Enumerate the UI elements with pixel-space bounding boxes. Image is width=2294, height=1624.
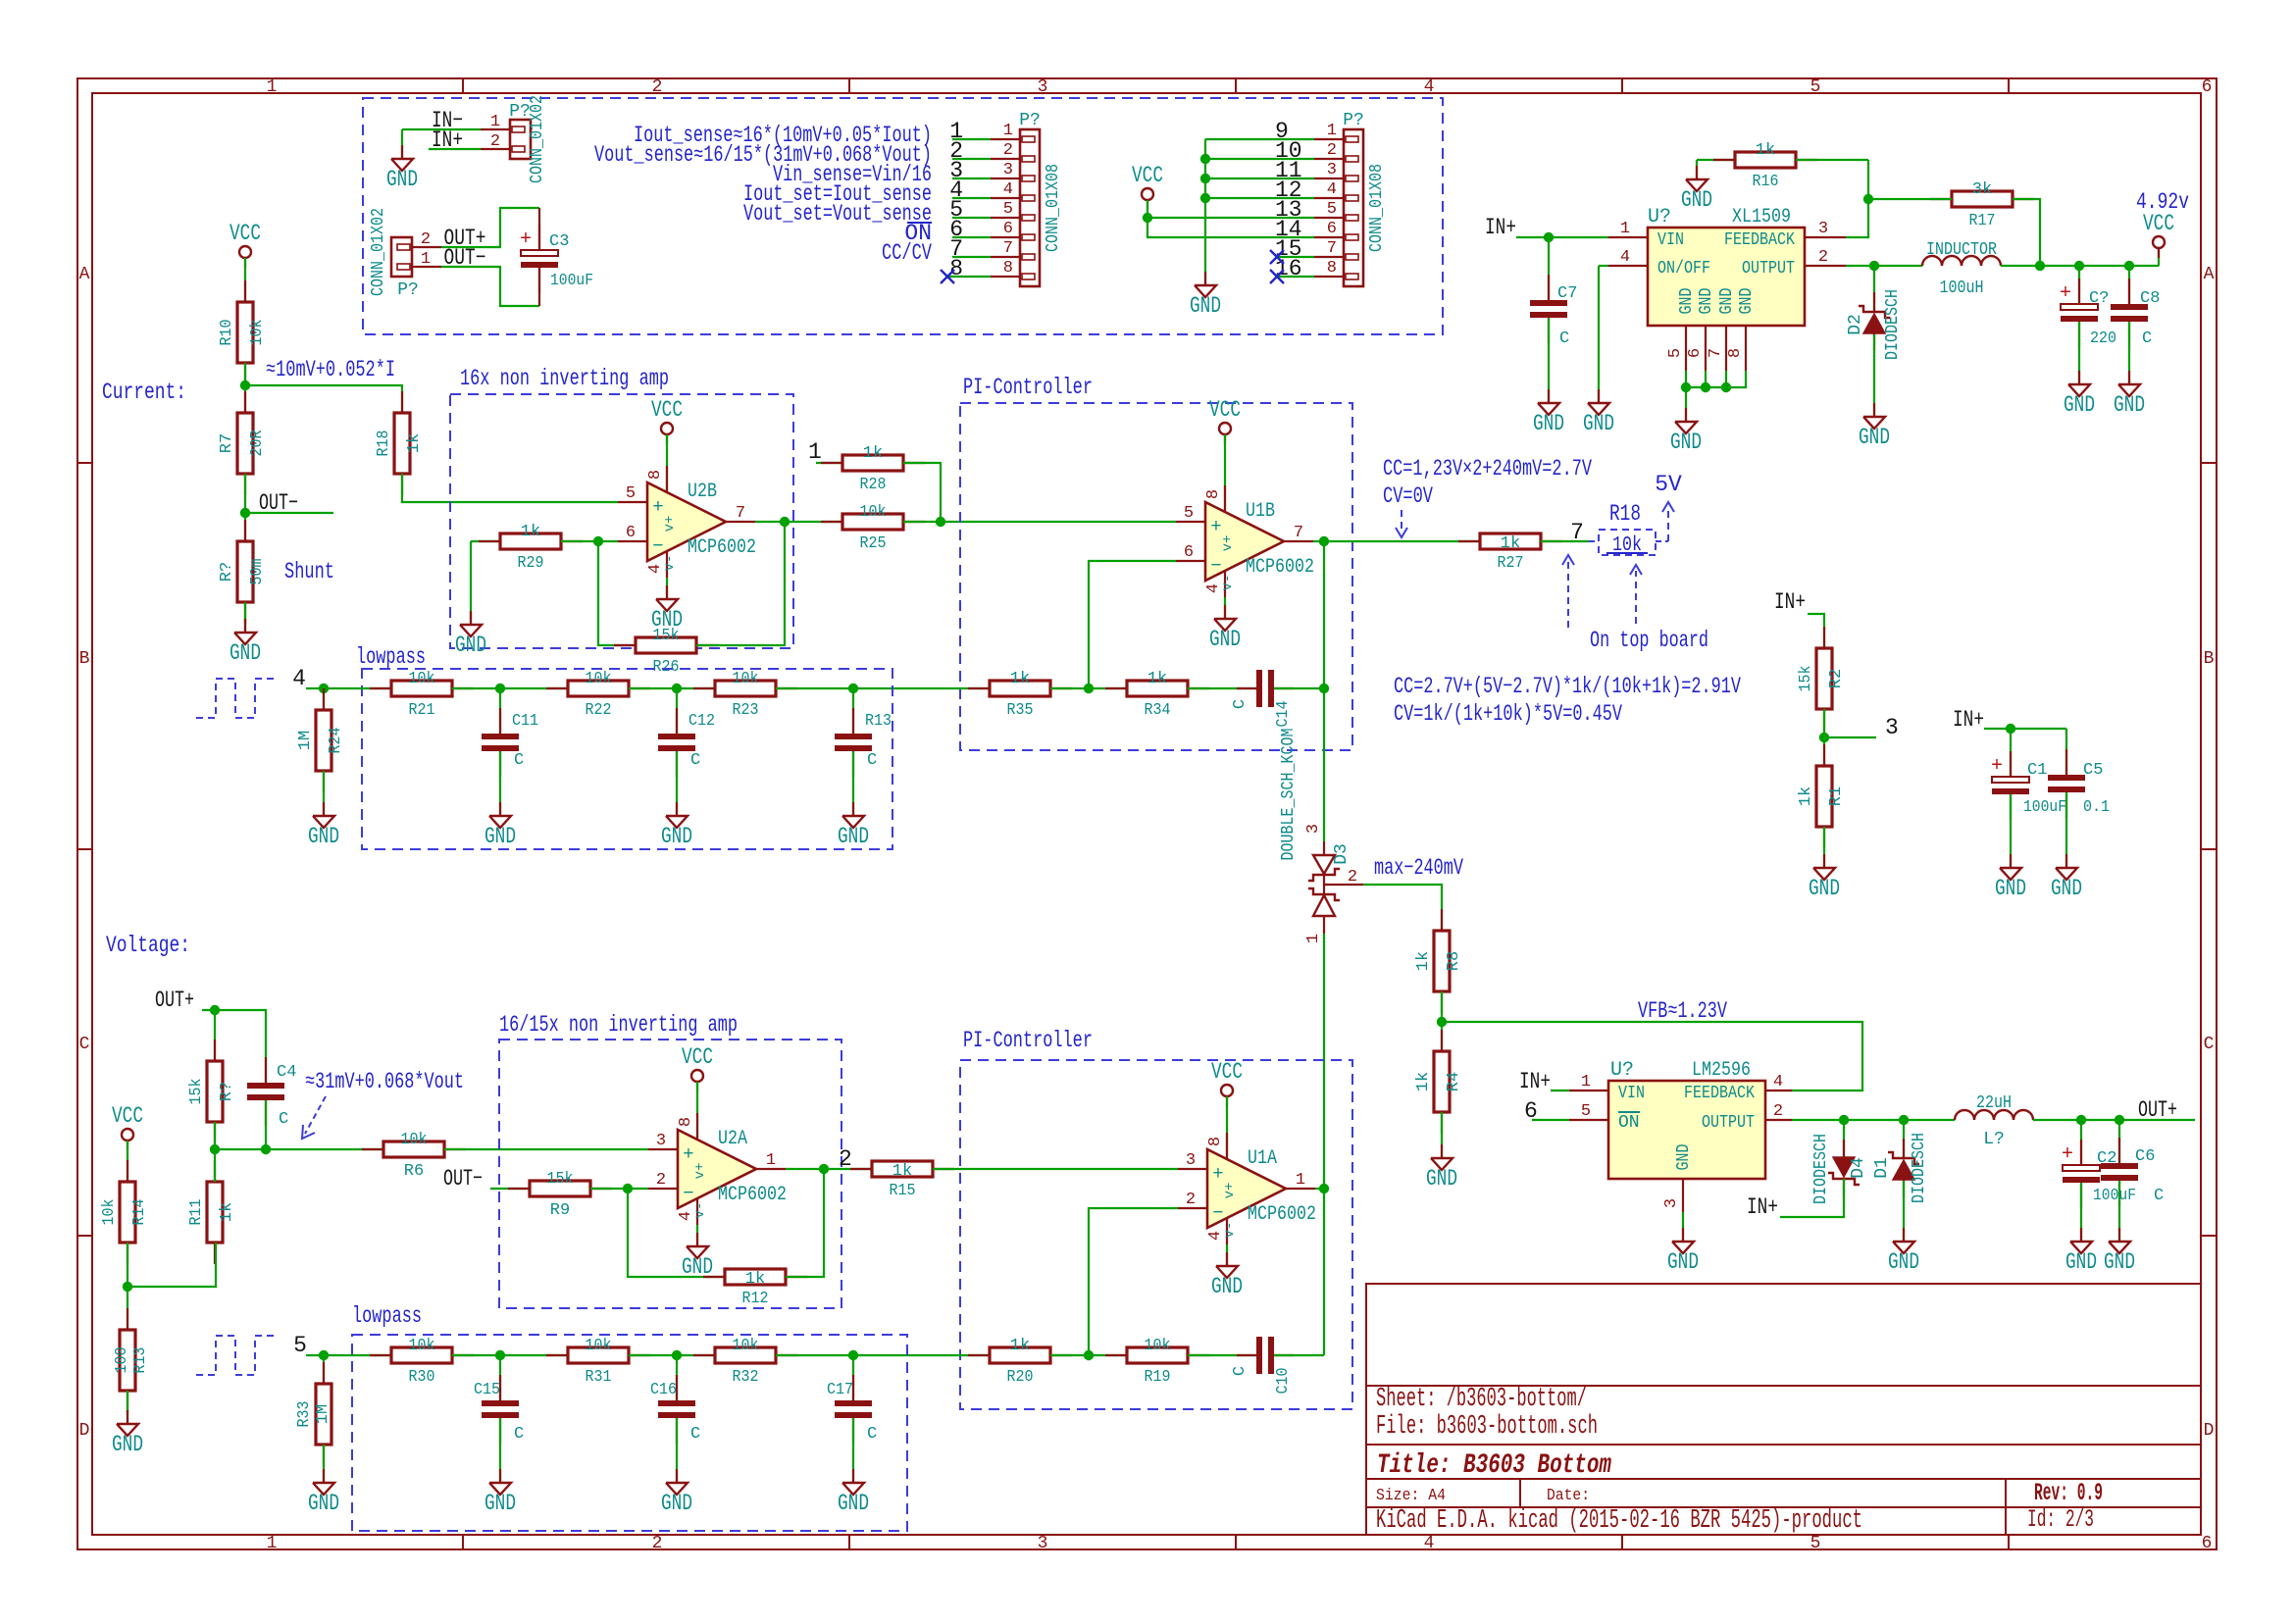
capacitor C14	[1231, 670, 1294, 728]
svg-text:On top board: On top board	[1590, 628, 1708, 653]
junction	[2006, 724, 2015, 734]
svg-text:CC/CV: CC/CV	[882, 240, 932, 266]
svg-text:1: 1	[1581, 1073, 1591, 1091]
svg-text:7: 7	[1003, 239, 1013, 258]
wire	[1274, 1354, 1324, 1356]
svg-text:GND: GND	[1995, 876, 2026, 901]
no-connect x pin8	[941, 270, 954, 283]
pulse waveform icon (top)	[196, 679, 275, 718]
ground (R29)	[455, 611, 486, 658]
wire	[696, 1082, 698, 1138]
svg-text:GND: GND	[455, 633, 486, 658]
junction	[1544, 232, 1554, 242]
resistor R28	[821, 444, 925, 494]
wire feedback	[786, 1169, 824, 1277]
ground (connector bus)	[1190, 272, 1221, 319]
resistor R33	[295, 1362, 332, 1466]
svg-text:R12: R12	[742, 1290, 769, 1308]
svg-text:R4: R4	[1445, 1072, 1463, 1091]
note CC/CV divider formulas	[1394, 555, 1741, 727]
wire	[696, 1225, 698, 1246]
svg-text:2: 2	[1003, 141, 1013, 160]
svg-text:+: +	[1991, 755, 2003, 778]
svg-text:Id: 2/3: Id: 2/3	[2027, 1505, 2094, 1534]
power VCC (U1B)	[1209, 397, 1241, 444]
svg-text:6: 6	[626, 524, 636, 542]
wire	[2013, 199, 2040, 266]
wire	[245, 385, 402, 413]
svg-text:10k: 10k	[586, 670, 612, 688]
svg-text:GND: GND	[1737, 288, 1757, 315]
svg-text:3: 3	[1003, 161, 1013, 179]
svg-text:10k: 10k	[733, 670, 759, 688]
wire VFB	[1442, 1022, 1862, 1091]
svg-text:R29: R29	[518, 554, 544, 573]
svg-text:C12: C12	[688, 712, 715, 731]
svg-text:VCC: VCC	[229, 221, 261, 246]
svg-text:10k: 10k	[409, 670, 435, 688]
ground (R1)	[1809, 854, 1840, 901]
junction	[672, 1350, 682, 1360]
svg-text:GND: GND	[1426, 1166, 1457, 1192]
wire	[499, 1355, 501, 1400]
resistor R20	[968, 1337, 1072, 1387]
resistor R18 (10k, dashed, on top board)	[1589, 501, 1674, 557]
op-amp U1B MCP6002	[1176, 485, 1314, 597]
svg-text:7: 7	[1707, 348, 1725, 358]
svg-text:1k: 1k	[1797, 787, 1815, 806]
svg-text:DOUBLE_SCH_KCOM: DOUBLE_SCH_KCOM	[1279, 729, 1299, 861]
wire	[945, 276, 991, 278]
svg-text:GND: GND	[1211, 1274, 1243, 1299]
svg-text:4: 4	[677, 1211, 695, 1221]
wire	[306, 1354, 391, 1356]
svg-text:+: +	[1212, 1163, 1223, 1185]
svg-text:8: 8	[646, 470, 665, 480]
ground (U2B)	[651, 585, 683, 633]
wire net13	[1147, 217, 1314, 219]
svg-text:5: 5	[1666, 348, 1685, 358]
wire	[1224, 597, 1226, 619]
svg-text:8: 8	[1726, 348, 1745, 358]
svg-text:GND: GND	[386, 167, 418, 192]
wire	[538, 208, 540, 250]
svg-text:5: 5	[293, 1333, 307, 1358]
wire	[561, 540, 618, 542]
wire	[852, 1418, 854, 1483]
svg-text:OUTPUT: OUTPUT	[1742, 259, 1795, 279]
svg-text:CV=1k/(1k+10k)*5V=0.45V: CV=1k/(1k+10k)*5V=0.45V	[1394, 701, 1622, 727]
junction	[1863, 194, 1873, 204]
svg-text:GND: GND	[1674, 1144, 1694, 1171]
svg-text:R21: R21	[409, 701, 435, 720]
wire	[1796, 159, 1868, 161]
svg-text:5: 5	[1184, 504, 1194, 523]
svg-text:OUT+: OUT+	[155, 988, 194, 1013]
svg-text:100uH: 100uH	[1940, 279, 1984, 298]
svg-text:XL1509: XL1509	[1732, 206, 1791, 228]
svg-text:P?: P?	[1343, 111, 1364, 130]
wire	[1824, 736, 1876, 738]
ground (C11)	[484, 802, 516, 849]
svg-text:1k: 1k	[1010, 670, 1030, 688]
wire	[1697, 159, 1735, 161]
wire	[452, 1354, 568, 1356]
wire	[127, 1243, 216, 1287]
wire	[306, 687, 391, 689]
svg-text:GND: GND	[484, 824, 516, 849]
wire	[1324, 540, 1480, 542]
svg-text:10k: 10k	[401, 1131, 428, 1149]
wire	[1682, 1212, 1684, 1242]
junction	[1084, 684, 1094, 693]
svg-text:+: +	[1210, 516, 1221, 537]
wire	[1705, 371, 1707, 387]
wire	[1516, 236, 1608, 238]
svg-text:IN+: IN+	[1747, 1194, 1778, 1220]
capacitor C1 100uF	[1991, 751, 2066, 820]
wire	[786, 1168, 824, 1170]
svg-text:4: 4	[1424, 1534, 1435, 1553]
svg-text:R9: R9	[550, 1201, 570, 1220]
svg-text:3k: 3k	[1972, 180, 1992, 199]
svg-text:0.1: 0.1	[2083, 798, 2110, 817]
svg-text:4: 4	[1003, 180, 1013, 199]
svg-text:−: −	[1212, 1202, 1223, 1224]
wire	[1808, 614, 1824, 648]
junction	[319, 1350, 329, 1360]
wire feedback	[1846, 160, 1868, 237]
svg-text:GND: GND	[2064, 392, 2095, 418]
svg-text:D4: D4	[1849, 1157, 1868, 1179]
svg-text:1k: 1k	[1010, 1337, 1030, 1355]
ground (C15)	[484, 1469, 516, 1516]
wire	[2080, 1120, 2082, 1165]
svg-text:R10: R10	[218, 320, 236, 346]
svg-text:GND: GND	[1697, 288, 1716, 315]
svg-text:DIODESCH: DIODESCH	[1883, 289, 1903, 360]
capacitor C5 0.1	[2048, 749, 2110, 818]
wire	[1226, 1244, 1228, 1266]
resistor R15	[850, 1161, 954, 1200]
svg-text:−: −	[683, 1183, 693, 1204]
notes: sense formulas	[594, 123, 932, 266]
wire	[245, 512, 333, 514]
svg-text:Current:: Current:	[102, 380, 186, 405]
wire	[2078, 322, 2080, 384]
ground (C12)	[661, 802, 692, 849]
svg-text:DIODESCH: DIODESCH	[1811, 1134, 1831, 1204]
svg-text:4: 4	[1206, 1231, 1225, 1241]
wire	[244, 602, 246, 633]
wire to U2A +	[444, 1148, 648, 1150]
resistor R21	[370, 670, 474, 720]
svg-text:GND: GND	[112, 1432, 143, 1457]
wire	[2010, 729, 2012, 777]
junction	[1319, 684, 1329, 693]
wire	[244, 363, 246, 413]
wire	[1868, 198, 1952, 200]
resistor R10	[218, 280, 267, 384]
junction	[1839, 1115, 1849, 1125]
connector P3 CONN_01X08 (pins 1-8)	[991, 111, 1063, 286]
wire	[629, 1354, 715, 1356]
wire	[441, 208, 539, 247]
svg-text:GND: GND	[2065, 1249, 2097, 1275]
wire OUT+ node	[2033, 1119, 2195, 1121]
svg-text:10k: 10k	[409, 1337, 435, 1355]
svg-text:C1: C1	[2027, 761, 2047, 780]
resistor R7	[218, 391, 267, 495]
connector P4 CONN_01X08 (pins 9-16)	[1314, 111, 1387, 286]
ground (ON/OFF)	[1583, 389, 1614, 436]
wire	[852, 1355, 854, 1400]
svg-text:+: +	[520, 228, 532, 251]
wire	[323, 771, 325, 816]
svg-text:1k: 1k	[1414, 1072, 1433, 1091]
svg-text:GND: GND	[1717, 288, 1737, 315]
svg-text:R19: R19	[1145, 1368, 1171, 1387]
svg-text:GND: GND	[1190, 293, 1221, 319]
resistor R32	[693, 1337, 797, 1387]
svg-text:R15: R15	[890, 1182, 916, 1200]
capacitor C4	[247, 1057, 296, 1129]
svg-text:10k: 10k	[733, 1337, 759, 1355]
wire	[1532, 1119, 1569, 1121]
op-amp U1A MCP6002	[1178, 1133, 1316, 1244]
diode D2 DIODESCH	[1846, 289, 1903, 360]
svg-text:−: −	[1210, 555, 1221, 577]
svg-text:GND: GND	[2104, 1249, 2135, 1275]
junction	[623, 1184, 633, 1193]
svg-text:3: 3	[1885, 715, 1899, 740]
svg-text:5: 5	[1810, 1534, 1821, 1553]
wire net9	[1205, 138, 1314, 140]
wire	[441, 267, 539, 306]
svg-text:D2: D2	[1846, 314, 1865, 335]
wire	[127, 1243, 128, 1330]
ground (IN-)	[386, 145, 418, 192]
wire	[1685, 387, 1687, 422]
power VCC (4.92v)	[2143, 211, 2174, 258]
junction	[2124, 261, 2134, 271]
svg-text:CC=2.7V+(5V−2.7V)*1k/(10k+1k)=: CC=2.7V+(5V−2.7V)*1k/(10k+1k)=2.91V	[1394, 674, 1741, 699]
svg-text:v+: v+	[1220, 535, 1236, 552]
resistor R1	[1797, 744, 1846, 848]
svg-text:OUTPUT: OUTPUT	[1702, 1113, 1755, 1133]
wire	[676, 1418, 678, 1483]
svg-text:R32: R32	[733, 1368, 759, 1387]
wire	[853, 687, 990, 689]
ground (C7)	[1533, 389, 1564, 436]
capacitor C16	[650, 1375, 700, 1444]
svg-text:4: 4	[1424, 77, 1435, 97]
wire	[676, 751, 678, 816]
svg-text:1M: 1M	[296, 731, 315, 750]
svg-text:VCC: VCC	[1211, 1059, 1243, 1085]
resistor R23	[693, 670, 797, 720]
svg-text:C10: C10	[1274, 1368, 1293, 1395]
svg-text:Shunt: Shunt	[284, 559, 334, 584]
wire	[1441, 1112, 1443, 1158]
wire	[1725, 371, 1727, 387]
svg-text:GND: GND	[484, 1491, 516, 1516]
wire feedback	[1089, 561, 1176, 688]
svg-text:R34: R34	[1145, 701, 1171, 720]
wire	[471, 540, 500, 542]
resistor R27	[1458, 533, 1562, 573]
svg-text:U1A: U1A	[1248, 1147, 1277, 1170]
wire	[244, 474, 246, 541]
svg-text:1k: 1k	[1756, 141, 1775, 160]
wire row	[215, 1148, 383, 1150]
svg-text:+: +	[652, 496, 663, 518]
svg-text:22uH: 22uH	[1976, 1093, 2012, 1113]
svg-text:C: C	[2154, 1187, 2164, 1205]
capacitor C15	[474, 1375, 524, 1444]
wire	[2065, 792, 2067, 868]
power VCC (current divider)	[229, 221, 261, 268]
wire	[1050, 687, 1127, 689]
svg-text:CONN_01X08: CONN_01X08	[1367, 164, 1387, 252]
svg-text:R14: R14	[130, 1199, 149, 1226]
resistor R? 15k	[187, 1040, 236, 1143]
svg-text:2: 2	[1327, 141, 1337, 160]
svg-text:7: 7	[736, 504, 745, 523]
wire	[952, 138, 991, 140]
resistor R12	[703, 1269, 807, 1308]
svg-text:100uF: 100uF	[550, 272, 593, 290]
svg-text:+: +	[2060, 282, 2071, 305]
svg-text:1k: 1k	[1147, 670, 1167, 688]
svg-text:GND: GND	[308, 824, 339, 849]
wire	[1598, 266, 1600, 403]
ground (U1B)	[1209, 605, 1241, 652]
svg-text:3: 3	[656, 1132, 666, 1150]
junction	[1819, 733, 1829, 742]
svg-text:15k: 15k	[547, 1170, 574, 1189]
wire	[1551, 1090, 1569, 1091]
svg-text:P?: P?	[397, 280, 419, 300]
resistor R2	[1797, 627, 1846, 731]
svg-text:GND: GND	[1667, 1249, 1699, 1275]
svg-text:R?: R?	[218, 1082, 236, 1101]
svg-text:1k: 1k	[1501, 534, 1520, 553]
IC U? XL1509	[1608, 206, 1846, 371]
ground (R33)	[308, 1469, 339, 1516]
svg-text:2: 2	[656, 1171, 666, 1190]
junction	[210, 1144, 220, 1154]
wire	[1147, 200, 1148, 218]
power VCC (connectors)	[1132, 163, 1163, 210]
svg-text:1: 1	[421, 250, 431, 269]
svg-text:4: 4	[1327, 180, 1337, 199]
svg-text:3: 3	[1662, 1198, 1681, 1208]
svg-text:R13: R13	[865, 712, 892, 731]
svg-text:PI-Controller: PI-Controller	[963, 375, 1093, 400]
ground (D2)	[1859, 403, 1890, 450]
connector P1 CONN_01X02 (IN)	[481, 95, 547, 183]
wire	[903, 463, 941, 522]
svg-text:−: −	[652, 535, 663, 557]
svg-text:7: 7	[1327, 239, 1337, 258]
ground (R13 cap)	[838, 802, 869, 849]
svg-text:2: 2	[490, 132, 500, 151]
wire	[1226, 1096, 1228, 1157]
wire	[1274, 687, 1324, 689]
wire	[1780, 1179, 1844, 1217]
svg-text:R20: R20	[1007, 1368, 1034, 1387]
svg-text:R35: R35	[1007, 701, 1034, 720]
wire	[452, 687, 568, 689]
resistor R18 (1k)	[375, 391, 424, 495]
svg-text:3: 3	[1327, 161, 1337, 179]
wire feedback	[696, 522, 785, 645]
wire	[824, 1168, 872, 1170]
junction	[1899, 1115, 1909, 1125]
svg-text:3: 3	[1818, 220, 1828, 238]
wire	[1541, 540, 1589, 542]
junction	[1200, 174, 1210, 183]
power VCC (U2A)	[682, 1044, 713, 1091]
resistor R9	[508, 1170, 612, 1220]
wire	[2065, 729, 2067, 775]
svg-text:8: 8	[1206, 1137, 1225, 1146]
power VCC (U2B)	[651, 397, 683, 444]
wire	[2010, 794, 2012, 868]
wire	[401, 129, 403, 159]
svg-text:VCC: VCC	[651, 397, 683, 423]
svg-text:OUT−: OUT−	[443, 1166, 483, 1192]
svg-text:15k: 15k	[1797, 666, 1815, 692]
diode D1 DIODESCH	[1872, 1133, 1929, 1203]
svg-text:3: 3	[1038, 1534, 1048, 1553]
svg-text:C: C	[867, 751, 877, 770]
wire	[952, 256, 991, 258]
wire	[1874, 265, 1922, 267]
svg-text:MCP6002: MCP6002	[688, 536, 756, 559]
capacitor C8	[2111, 279, 2160, 348]
svg-text:20R: 20R	[248, 431, 267, 457]
svg-text:GND: GND	[661, 1491, 692, 1516]
power VCC (voltage divider)	[112, 1103, 143, 1150]
svg-text:Size: A4: Size: A4	[1376, 1487, 1446, 1505]
junction	[1701, 382, 1710, 392]
op-amp U2B MCP6002	[618, 466, 756, 578]
svg-text:MCP6002: MCP6002	[1248, 1203, 1316, 1226]
svg-text:VIN: VIN	[1657, 230, 1684, 250]
svg-text:FEEDBACK: FEEDBACK	[1724, 230, 1795, 250]
svg-text:6: 6	[2202, 77, 2213, 97]
svg-text:1: 1	[808, 439, 822, 465]
diode D3 DOUBLE_SCH_KCOM	[1279, 729, 1363, 944]
svg-text:R23: R23	[733, 701, 759, 720]
resistor R24	[296, 688, 345, 792]
wire	[127, 1391, 128, 1424]
junction	[495, 1350, 505, 1360]
svg-text:220: 220	[2090, 330, 2116, 348]
svg-text:8: 8	[1204, 489, 1223, 499]
svg-text:GND: GND	[308, 1491, 339, 1516]
svg-text:OUT+: OUT+	[2138, 1097, 2177, 1123]
junction	[1869, 261, 1879, 271]
svg-text:R11: R11	[187, 1199, 206, 1226]
svg-text:C14: C14	[1274, 701, 1293, 728]
wire net10	[1205, 158, 1314, 160]
title block	[1366, 1284, 2201, 1536]
svg-text:5V: 5V	[1655, 472, 1682, 497]
svg-text:1: 1	[766, 1151, 776, 1170]
